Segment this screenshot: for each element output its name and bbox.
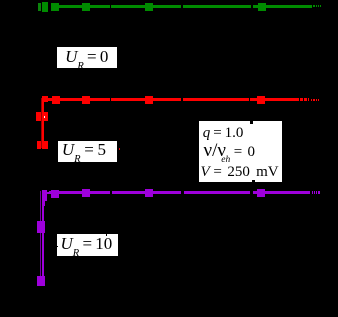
red line notch 2 [249, 98, 251, 102]
green dash 1 [313, 5, 314, 7]
red end notch a [299, 98, 300, 102]
purple line notch 2 [181, 191, 183, 195]
green marker m4 [145, 3, 153, 12]
red bottom marker pair right [42, 141, 48, 150]
red line notch mid [181, 98, 183, 102]
annotation line q = 1.0 [203, 125, 244, 142]
purple bottom marker blob [37, 276, 46, 286]
red dash 4 [318, 99, 319, 101]
annotation box [199, 121, 282, 182]
black speck above zero of U_R=10 [106, 234, 108, 236]
purple line notch 1 [110, 191, 112, 195]
red bright vertical line [42, 96, 44, 149]
purple horizontal line [50, 191, 310, 194]
label U_R = 10 [57, 234, 118, 256]
green marker m5 [258, 3, 266, 11]
green dash 4 [320, 5, 321, 7]
red mid marker pair left [36, 112, 41, 121]
purple curve U_R=10 : dim vertical line [39, 191, 42, 286]
annotation line V = 250 mV [201, 164, 279, 181]
purple marker m2 [51, 190, 59, 198]
annotation box black speck bottom [252, 180, 255, 183]
green line notch 2 [181, 5, 183, 8]
red corner partial marker [44, 96, 48, 102]
red end notch b [303, 98, 304, 102]
red dash 1 [311, 99, 312, 101]
purple teeth 2 [47, 192, 48, 195]
red stray speck [119, 148, 121, 150]
green curve U_R=0 : horizontal line [51, 5, 312, 7]
purple corner blob [42, 190, 47, 201]
label U_R = 0 [57, 47, 118, 69]
red curve U_R=5 : dark vertical line [41, 98, 42, 148]
purple bright vertical line [42, 191, 44, 286]
red mid marker white dot [44, 116, 45, 117]
red dash 2 [313, 99, 314, 101]
green marker m3 [82, 3, 90, 12]
purple mid marker blob [37, 221, 46, 232]
purple dash 4 [318, 191, 320, 193]
red dash 3 [316, 99, 317, 101]
green marker m1 [42, 2, 48, 12]
red marker m2 [52, 96, 60, 104]
red marker m5 [257, 96, 265, 104]
red bottom marker pair left [37, 141, 42, 150]
label U_R = 5 [58, 141, 117, 162]
purple teeth 1 [45, 191, 46, 194]
annotation box black speck top [250, 121, 253, 124]
purple dash 2 [314, 191, 315, 193]
green marker m2 [51, 3, 59, 12]
purple teeth 3 [49, 191, 50, 194]
green dash 2 [316, 5, 317, 7]
green marker m0 (clipped bar) [38, 3, 41, 11]
green dash 3 [318, 5, 319, 7]
label U_R = 10 left-edge black tick [57, 246, 58, 247]
red mid marker pair right [42, 112, 47, 121]
purple marker m5 [257, 189, 266, 197]
green line notch 3 [251, 5, 253, 8]
purple corner bar below [43, 201, 45, 206]
purple dash 3 [316, 191, 317, 193]
red end notch c [307, 98, 308, 102]
annotation line nu/nu_eh = 0 [204, 140, 255, 162]
purple marker m4 [145, 189, 153, 197]
purple dash 1 [312, 191, 313, 193]
red marker m3 [82, 96, 90, 104]
red horizontal line [42, 98, 309, 101]
red line notch 1 [110, 98, 112, 102]
purple line notch 3 [250, 191, 252, 195]
red marker m4 [145, 96, 153, 104]
green line notch 1 [110, 5, 112, 8]
purple marker m3 [82, 189, 90, 197]
